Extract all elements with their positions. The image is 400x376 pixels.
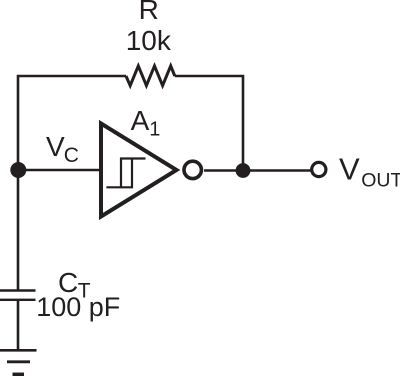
node: VC junction dot xyxy=(10,162,26,178)
wire: feedback loop left (node up to top rail, across to resistor) xyxy=(18,76,126,171)
capacitor CT bottom plate xyxy=(0,299,36,301)
wire: capacitor bottom plate to ground xyxy=(17,300,20,351)
svg-text:VOUT: VOUT xyxy=(339,152,400,192)
wire: junction to output terminal xyxy=(243,169,311,172)
svg-text:VC: VC xyxy=(46,131,79,167)
node: output junction dot xyxy=(236,163,251,178)
terminal: VOUT open circle xyxy=(312,162,326,176)
wire: bubble to output junction xyxy=(204,169,243,172)
op-amp U A1 (Schmitt-trigger inverter) triangle xyxy=(101,124,177,217)
svg-text:10k: 10k xyxy=(126,25,172,56)
hysteresis symbol inside A1 xyxy=(106,159,145,188)
ground symbol xyxy=(0,350,37,374)
inversion bubble on A1 output xyxy=(184,161,201,178)
wire: resistor to right corner and down to output junction xyxy=(175,76,243,171)
svg-text:100 pF: 100 pF xyxy=(36,292,120,322)
capacitor CT top plate xyxy=(0,289,36,291)
svg-text:R: R xyxy=(139,0,159,25)
wire: node down to capacitor top plate xyxy=(17,170,20,291)
resistor R1 zigzag xyxy=(126,66,175,86)
svg-text:A1: A1 xyxy=(131,105,161,141)
wire: input from node to inverter xyxy=(18,169,101,172)
